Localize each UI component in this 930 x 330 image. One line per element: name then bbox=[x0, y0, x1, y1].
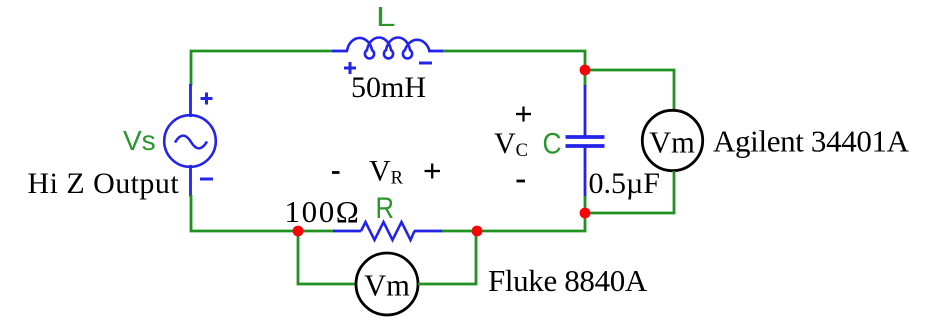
wire: left branch from source top to top rail bbox=[191, 51, 333, 86]
svg-text:VC: VC bbox=[494, 127, 528, 161]
wire: Fluke loop left side bbox=[298, 231, 356, 284]
svg-text:Vm: Vm bbox=[649, 126, 695, 160]
svg-text:Fluke 8840A: Fluke 8840A bbox=[488, 263, 648, 298]
svg-text:Hi Z Output: Hi Z Output bbox=[28, 167, 180, 200]
svg-text:Vm: Vm bbox=[364, 269, 410, 303]
node junction: resistor right bbox=[472, 226, 483, 237]
wire: Agilent meter bottom to capacitor bottom junction bbox=[589, 171, 674, 213]
node junction: capacitor bottom bbox=[580, 208, 591, 219]
wire: capacitor top junction to Agilent meter bbox=[589, 70, 674, 111]
svg-text:0.5µF: 0.5µF bbox=[589, 167, 660, 200]
wire: resistor right green segment bbox=[442, 230, 477, 233]
wire: Fluke loop right side bbox=[418, 231, 476, 284]
wire: source top blue stub bbox=[189, 84, 192, 117]
polarity - at source bottom bbox=[200, 178, 213, 181]
svg-text:50mH: 50mH bbox=[351, 71, 426, 104]
inductor L leads bbox=[332, 50, 444, 53]
wire: resistor left green segment bbox=[298, 230, 334, 233]
svg-text:Vs: Vs bbox=[123, 125, 156, 156]
polarity - at inductor right bbox=[419, 62, 432, 65]
svg-text:Agilent 34401A: Agilent 34401A bbox=[713, 124, 910, 159]
svg-text:100Ω: 100Ω bbox=[285, 194, 361, 229]
inductor L coil bbox=[347, 38, 430, 59]
node junction: capacitor top bbox=[580, 65, 591, 76]
resistor R zigzag bbox=[361, 222, 415, 240]
wire: source bottom to bottom rail left bbox=[191, 195, 299, 231]
wire: bottom rail resistor right to capacitor bottom junction bbox=[477, 212, 585, 231]
svg-text:C: C bbox=[543, 128, 562, 161]
capacitor C plates bbox=[566, 137, 605, 146]
svg-text:R: R bbox=[376, 192, 395, 225]
polarity + at source top bbox=[201, 93, 213, 105]
voltmeter Vm (Agilent 34401A) bbox=[642, 110, 702, 170]
voltmeter Vm (Fluke 8840A) bbox=[356, 253, 418, 315]
resistor R leads bbox=[333, 230, 443, 233]
wire: capacitor bottom plate to junction (blue then green) bbox=[584, 147, 587, 197]
wire: junction to capacitor top plate (green then blue) bbox=[584, 70, 587, 86]
polarity + at inductor left bbox=[344, 62, 356, 74]
svg-text:VR: VR bbox=[369, 155, 404, 189]
wire: source bottom blue stub bbox=[189, 165, 192, 197]
polarity - left of VR bbox=[332, 171, 340, 174]
svg-text:L: L bbox=[376, 1, 396, 32]
polarity + above VC bbox=[516, 107, 531, 122]
wire: top rail from inductor to top-right corner bbox=[443, 51, 585, 66]
voltage source Vs sine symbol bbox=[175, 136, 207, 149]
node junction: resistor left bbox=[293, 226, 304, 237]
polarity - below VC bbox=[517, 180, 526, 183]
polarity + right of VR bbox=[425, 164, 441, 179]
voltage source Vs circle bbox=[164, 115, 216, 167]
